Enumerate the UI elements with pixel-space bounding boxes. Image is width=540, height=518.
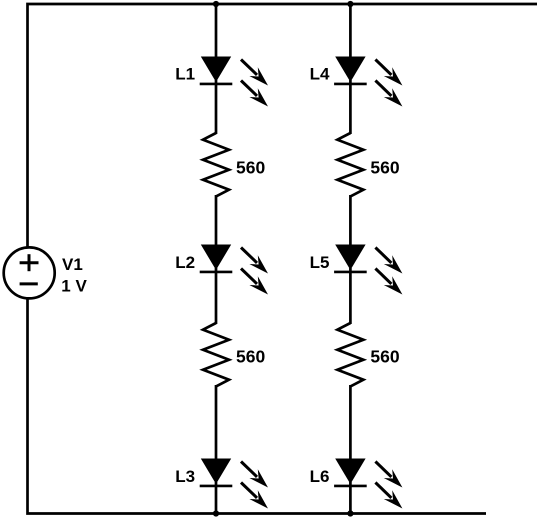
svg-text:560: 560 bbox=[236, 346, 265, 366]
svg-text:1 V: 1 V bbox=[61, 276, 87, 295]
svg-text:560: 560 bbox=[236, 157, 265, 177]
svg-text:V1: V1 bbox=[62, 255, 83, 274]
svg-text:560: 560 bbox=[370, 346, 399, 366]
svg-text:L4: L4 bbox=[310, 64, 330, 83]
svg-text:L1: L1 bbox=[175, 64, 195, 83]
svg-text:L6: L6 bbox=[310, 467, 330, 486]
svg-text:L2: L2 bbox=[175, 253, 195, 272]
svg-text:L5: L5 bbox=[310, 253, 330, 272]
svg-text:L3: L3 bbox=[175, 467, 195, 486]
svg-text:560: 560 bbox=[370, 157, 399, 177]
